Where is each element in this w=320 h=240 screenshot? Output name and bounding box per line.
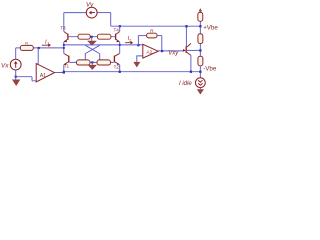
node A2 feedback dot: [137, 44, 139, 46]
arrow top middle: [87, 41, 97, 46]
wire bottom base row: [70, 61, 114, 63]
wire A2 feedback up: [137, 36, 139, 45]
resistor Rb1: [77, 60, 91, 65]
wire T5 base link to chain: [187, 49, 200, 51]
wire T4 collector riser: [119, 26, 121, 31]
wire Vy right horizontal: [97, 12, 111, 14]
wire stem bottom middle: [91, 62, 93, 65]
transistor T4: [116, 32, 120, 43]
wire right rail mid: [119, 42, 121, 54]
wire A2 plus input: [137, 56, 143, 62]
node left rail I1 junction: [63, 47, 65, 49]
wire T2 emitter to bottom rail: [119, 65, 121, 72]
resistor Ra1: [78, 34, 90, 39]
ground below I idle: [197, 89, 204, 94]
wire chain: [199, 21, 201, 34]
wire Vy right drop: [110, 13, 112, 27]
resistor Rb2: [97, 60, 111, 65]
resistor R1: [20, 45, 33, 50]
node -Vbe dot: [199, 71, 201, 73]
svg-text:T3: T3: [60, 25, 66, 30]
wire top base row: [69, 36, 116, 38]
node A2 output dot: [161, 50, 163, 52]
node T4 riser dot: [119, 25, 121, 27]
node I1 junction dot: [38, 47, 40, 49]
wire top stub: [199, 11, 201, 13]
resistor chain 2: [198, 34, 203, 44]
ground below A2: [133, 62, 140, 68]
node A1 output dot: [63, 71, 65, 74]
wire chain mid: [199, 44, 201, 57]
wire left rail mid: [63, 42, 65, 54]
transistor T2: [114, 54, 119, 65]
wire T5 emitter drop: [190, 55, 192, 71]
source I idle: [195, 78, 205, 88]
svg-text:I idle: I idle: [179, 81, 192, 87]
wire feedback down: [161, 36, 163, 51]
transistor T5: [183, 43, 191, 55]
svg-text:Vxy: Vxy: [168, 51, 179, 57]
node T2 rail dot: [119, 71, 121, 73]
svg-text:T1: T1: [64, 63, 70, 68]
ground below Vx: [15, 77, 17, 80]
svg-text:R: R: [25, 41, 28, 45]
resistor R feedback: [147, 33, 157, 38]
node chain mid dot: [199, 49, 201, 51]
node right rail emitter row junction: [119, 44, 121, 46]
wire bottom rail: [64, 71, 201, 73]
transistor T1: [64, 54, 69, 65]
wire emitter row: [64, 44, 143, 46]
wire left rail top: [63, 13, 65, 32]
node T5 collector dot: [185, 25, 187, 27]
wire top rail to +Vbe chain: [111, 25, 201, 27]
arrow I2 current: [125, 42, 132, 44]
wire stem top middle: [91, 37, 93, 41]
wire I1 row: [16, 47, 64, 49]
arrow I1 current: [42, 44, 51, 46]
node bottom middle dot: [91, 61, 93, 63]
op-amp A2: [143, 44, 158, 58]
source Vy: [86, 7, 97, 18]
wire T5 collector riser: [185, 26, 187, 46]
source Vx: [10, 59, 21, 70]
wire A1 lower input: [16, 77, 37, 81]
node T5 emitter rail dot: [190, 71, 192, 73]
wire A1 top input drop: [37, 48, 39, 65]
node Vx ground dot: [15, 76, 17, 78]
svg-text:T4: T4: [114, 28, 120, 33]
svg-text:T2: T2: [114, 64, 120, 69]
wire chain bottom: [199, 66, 201, 78]
resistor chain 1: [198, 12, 203, 21]
wire below I idle: [199, 88, 201, 90]
wire Vx riser: [15, 48, 17, 59]
arrow supply top: [199, 8, 203, 11]
node left rail emitter row junction: [63, 44, 65, 46]
svg-text:Vx: Vx: [1, 63, 9, 70]
wire A2 output to T5 base: [158, 50, 184, 52]
arrow bottom middle: [88, 65, 97, 70]
node top middle dot: [91, 36, 93, 38]
wire Vy left horizontal: [64, 12, 87, 14]
wire Vx bottom: [15, 70, 17, 77]
wire feedback top left: [138, 35, 146, 37]
svg-text:A2: A2: [146, 49, 152, 55]
wire A1 output: [55, 72, 64, 74]
op-amp A1: [36, 64, 54, 82]
node +Vbe dot: [199, 25, 201, 27]
resistor chain 3: [198, 56, 203, 66]
svg-text:R: R: [150, 28, 154, 33]
wire feedback top right: [157, 35, 162, 37]
svg-text:+Vbe: +Vbe: [203, 25, 218, 32]
wire cross X stubs: [85, 54, 99, 60]
wire T1 emitter to A1 node: [63, 65, 65, 72]
resistor Ra2: [97, 34, 111, 39]
wire cross X diagonals: [85, 45, 99, 53]
svg-text:-Vbe: -Vbe: [203, 66, 217, 73]
svg-text:A1: A1: [40, 73, 46, 79]
svg-text:Vy: Vy: [86, 1, 94, 8]
transistor T3: [64, 32, 68, 43]
